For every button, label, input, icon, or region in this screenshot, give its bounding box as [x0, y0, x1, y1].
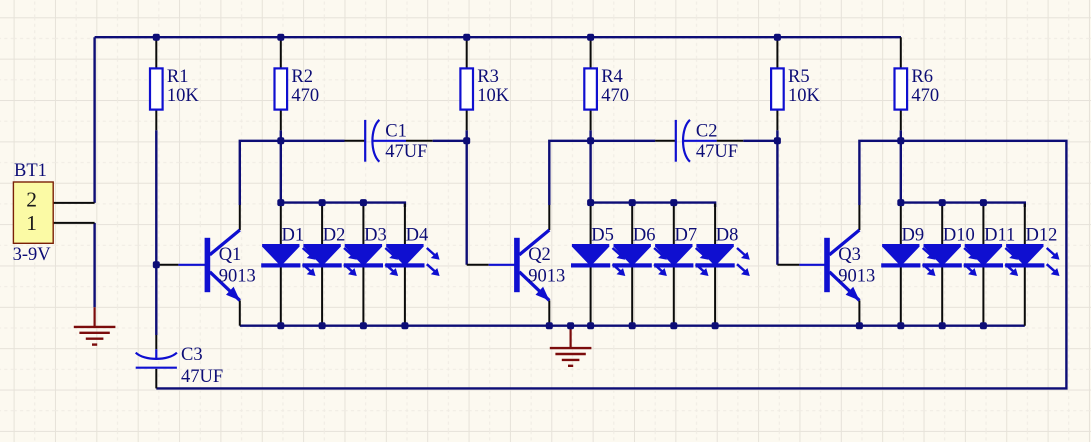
LED D11	[964, 204, 1018, 326]
pin Q3 collector	[858, 205, 860, 230]
wire LED anode rail stage 1	[281, 203, 405, 207]
resistor R2	[275, 37, 288, 130]
ground symbol at emitter rail	[550, 326, 592, 366]
wire R5 to Q3 base	[776, 130, 778, 264]
resistor R1	[150, 37, 163, 130]
svg-text:Q1: Q1	[219, 245, 242, 265]
wire LED anode rail stage 3	[901, 203, 1025, 207]
junction capacitor wire x=466.7	[463, 137, 470, 144]
junction top rail x=466.7	[463, 34, 470, 41]
LED D5	[571, 204, 625, 326]
svg-text:1: 1	[26, 211, 37, 235]
transistor Q1 9013	[205, 230, 240, 301]
battery BT1	[13, 182, 53, 243]
LED D10	[923, 204, 977, 326]
junction emitter rail x=715.1	[712, 322, 719, 329]
pin Q1 emitter	[239, 300, 241, 325]
LED D4	[385, 204, 439, 326]
resistor R5	[771, 37, 784, 130]
pin Q1 base inner	[178, 264, 205, 266]
junction top rail x=280.8	[277, 34, 284, 41]
junction emitter rail x=590.6	[587, 322, 594, 329]
svg-text:10K: 10K	[477, 86, 510, 106]
svg-text:R6: R6	[911, 67, 933, 87]
junction capacitor wire x=590.6	[587, 137, 594, 144]
ground symbol at battery	[74, 307, 116, 344]
wire battery negative down	[93, 223, 95, 307]
LED D6	[613, 204, 667, 326]
wire R4 node	[589, 130, 591, 202]
junction emitter rail x=280.8	[277, 322, 284, 329]
junction emitter rail x=900.8	[897, 322, 904, 329]
junction capacitor wire x=900.8	[897, 137, 904, 144]
pin battery BT1 pin 2	[53, 202, 94, 204]
pin C1 negative	[406, 140, 433, 142]
wire battery positive to VCC rail	[93, 37, 95, 203]
svg-text:C3: C3	[181, 345, 203, 365]
svg-text:D12: D12	[1026, 225, 1058, 245]
junction emitter rail x=549.3	[546, 322, 553, 329]
svg-text:470: 470	[291, 86, 319, 106]
svg-text:D6: D6	[633, 225, 656, 245]
LED D1	[261, 204, 315, 326]
LED D8	[696, 204, 750, 326]
wire R2 node	[280, 130, 282, 202]
svg-text:Q2: Q2	[528, 245, 551, 265]
wire Q1 base node to C3	[155, 265, 157, 335]
svg-text:10K: 10K	[788, 86, 821, 106]
pin Q3 emitter	[858, 300, 860, 325]
junction LED rail x=632.2	[629, 199, 636, 206]
wire Q2 collector node	[549, 141, 655, 205]
LED D3	[344, 204, 398, 326]
svg-text:2: 2	[26, 188, 37, 212]
svg-text:9013: 9013	[838, 267, 875, 287]
LED D2	[303, 204, 357, 326]
wire VCC top rail	[95, 36, 901, 38]
svg-text:D10: D10	[943, 225, 975, 245]
junction emitter rail x=322.1	[319, 322, 326, 329]
wire C1 to R3	[433, 140, 467, 142]
pin Q3 base inner	[799, 264, 827, 266]
pin Q2 base	[467, 264, 489, 266]
svg-text:470: 470	[911, 86, 939, 106]
LED D9	[881, 204, 935, 326]
capacitor C1	[365, 120, 406, 162]
wire Q3 collector node	[859, 141, 900, 205]
wire R6 node	[900, 130, 902, 202]
junction emitter rail x=983.4	[980, 322, 987, 329]
junction emitter rail x=859.4	[856, 322, 863, 329]
svg-text:10K: 10K	[167, 86, 200, 106]
junction LED rail x=590.6	[587, 199, 594, 206]
svg-text:D3: D3	[364, 225, 387, 245]
wire LED anode rail stage 2	[591, 203, 716, 207]
resistor R4	[584, 37, 597, 130]
junction emitter rail x=942.2	[939, 322, 946, 329]
svg-text:D5: D5	[591, 225, 614, 245]
wire Q1 collector node	[240, 141, 345, 205]
wire C3 to Q3 collector bottom loop	[156, 141, 1066, 389]
wire R3 to Q2 base	[466, 130, 468, 264]
pin Q2 base inner	[489, 264, 518, 266]
junction capacitor wire x=777.4	[774, 137, 781, 144]
LED D7	[654, 204, 708, 326]
junction top rail x=156.3	[153, 34, 160, 41]
svg-text:D9: D9	[902, 225, 925, 245]
svg-text:R4: R4	[601, 67, 623, 87]
wire C2 to R5	[743, 140, 777, 142]
svg-text:470: 470	[601, 86, 629, 106]
svg-text:R2: R2	[291, 67, 313, 87]
svg-text:D4: D4	[406, 225, 429, 245]
junction LED rail x=280.8	[277, 199, 284, 206]
junction LED rail x=322.1	[319, 199, 326, 206]
pin C3 negative	[155, 369, 157, 389]
svg-text:D1: D1	[282, 225, 305, 245]
svg-text:Q3: Q3	[838, 245, 861, 265]
junction top rail x=777.4	[774, 34, 781, 41]
wire emitter ground rail	[240, 325, 1025, 327]
svg-text:3-9V: 3-9V	[13, 245, 52, 265]
svg-text:9013: 9013	[219, 267, 256, 287]
svg-text:47UF: 47UF	[181, 367, 223, 387]
pin C3 positive	[155, 335, 157, 349]
junction capacitor wire x=280.8	[277, 137, 284, 144]
pin C2 positive	[655, 140, 676, 142]
pin Q3 base	[777, 264, 799, 266]
junction emitter rail x=404.9	[401, 322, 408, 329]
wire R1 to Q1 base node	[155, 130, 157, 264]
pin Q1 base	[156, 264, 178, 266]
svg-text:47UF: 47UF	[696, 142, 738, 162]
pin Q1 collector	[239, 205, 241, 230]
transistor Q3 9013	[824, 230, 859, 301]
svg-text:D8: D8	[716, 225, 739, 245]
svg-text:C1: C1	[385, 122, 407, 142]
junction LED rail x=900.8	[897, 199, 904, 206]
pin C1 positive	[345, 140, 366, 142]
svg-text:R1: R1	[167, 67, 189, 87]
pin C2 negative	[717, 140, 744, 142]
LED D12	[1005, 204, 1059, 326]
pin battery BT1 pin 1	[53, 222, 94, 224]
junction LED rail x=942.2	[939, 199, 946, 206]
capacitor C3	[136, 349, 177, 367]
pin Q2 emitter	[548, 300, 550, 325]
resistor R3	[460, 37, 473, 130]
svg-text:47UF: 47UF	[385, 142, 427, 162]
transistor Q2 9013	[514, 230, 549, 301]
svg-text:C2: C2	[696, 122, 718, 142]
junction emitter rail x=673.8	[670, 322, 677, 329]
junction emitter rail x=363.4	[360, 322, 367, 329]
pin Q2 collector	[548, 205, 550, 230]
capacitor C2	[676, 120, 717, 162]
svg-text:R5: R5	[788, 67, 810, 87]
junction LED rail x=673.8	[670, 199, 677, 206]
junction LED rail x=983.4	[980, 199, 987, 206]
svg-text:R3: R3	[477, 67, 499, 87]
resistor R6	[895, 37, 908, 130]
junction emitter rail x=632.2	[629, 322, 636, 329]
svg-text:BT1: BT1	[14, 161, 47, 181]
junction top rail x=590.6	[587, 34, 594, 41]
svg-text:D11: D11	[984, 225, 1015, 245]
junction LED rail x=363.4	[360, 199, 367, 206]
svg-text:9013: 9013	[528, 267, 565, 287]
junction emitter rail x=570.6	[567, 322, 574, 329]
svg-text:D2: D2	[323, 225, 346, 245]
svg-text:D7: D7	[675, 225, 698, 245]
junction Q1 base node	[153, 261, 160, 268]
